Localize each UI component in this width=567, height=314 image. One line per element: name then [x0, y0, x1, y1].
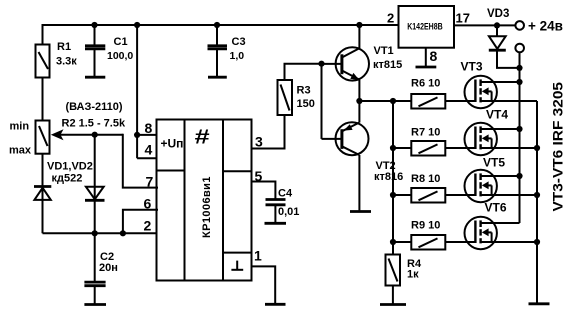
svg-text:R9 10: R9 10: [411, 219, 440, 231]
label VD1,VD2 kd522: [47, 160, 93, 184]
label max: [9, 144, 32, 156]
resistor R9: [393, 235, 475, 250]
resistor R1: [36, 45, 50, 78]
transistor VT1: [322, 25, 369, 101]
label #: [195, 126, 210, 148]
svg-text:6: 6: [144, 196, 152, 212]
capacitor C3: [208, 25, 228, 76]
node junction pin6 branch: [120, 230, 126, 236]
ground bar source rail: [529, 302, 550, 305]
svg-text:(ВАЗ-2110): (ВАЗ-2110): [66, 101, 123, 113]
resistor R3: [278, 80, 293, 115]
ground bar pin1: [265, 303, 286, 306]
svg-text:min: min: [10, 121, 30, 133]
svg-text:20н: 20н: [99, 262, 118, 274]
ground bar U2 pin8: [416, 66, 437, 69]
label VT5: [483, 156, 505, 170]
svg-text:VT6: VT6: [485, 200, 507, 214]
label R3 150: [297, 85, 315, 110]
ground bar C2: [84, 303, 106, 306]
label C3 1,0: [230, 36, 246, 62]
wire pin6 branch: [123, 210, 157, 234]
capacitor C4: [266, 200, 286, 223]
resistor R4: [386, 255, 401, 304]
svg-text:КР1006ви1: КР1006ви1: [201, 177, 213, 239]
wire R1 to R2: [42, 78, 44, 121]
pin number 1: [254, 248, 262, 264]
wire VD2 branch: [94, 135, 96, 234]
svg-text:2: 2: [144, 217, 152, 233]
svg-text:R7 10: R7 10: [411, 126, 440, 138]
resistor R6: [411, 94, 475, 109]
regulator U2 K142EH8B: [399, 6, 455, 48]
capacitor C2: [84, 233, 105, 303]
wire pin1 to ground: [252, 266, 276, 303]
ground symbol inside U1: [231, 261, 243, 270]
node junction pin8: [134, 22, 140, 138]
terminal +24v: [515, 19, 563, 34]
svg-text:#: #: [195, 126, 210, 148]
svg-text:0,01: 0,01: [278, 206, 299, 218]
wire pin5 to C4: [252, 182, 276, 199]
svg-text:4: 4: [145, 142, 153, 158]
label VT3-VT6 IRF 3205: [551, 81, 566, 211]
label R7 10: [411, 126, 440, 138]
wire R2 to VD1: [42, 154, 44, 234]
label VT2 kt816: [374, 160, 403, 183]
label R4 1k: [407, 258, 422, 281]
label C2 20n: [99, 251, 118, 274]
svg-text:VT3: VT3: [461, 60, 483, 74]
svg-text:+Uп: +Uп: [161, 136, 184, 150]
svg-text:3: 3: [255, 134, 263, 150]
wire supply to pins 8,4: [136, 25, 138, 158]
node junction VT3 drain: [516, 79, 522, 85]
label min: [10, 121, 30, 133]
pin number 7: [146, 173, 154, 189]
label C4 0,01: [278, 188, 299, 218]
node junction R8 feed: [390, 192, 396, 198]
pin number 5: [255, 168, 263, 184]
wire U2 pin8 to ground: [425, 48, 427, 66]
wire pin3 to R3: [252, 115, 285, 149]
transistor Q VT5 mosfet: [465, 170, 538, 202]
label R9 10: [411, 219, 440, 231]
svg-text:кд522: кд522: [52, 172, 83, 184]
transistor VT2: [322, 101, 369, 210]
wire gate distribution: [392, 101, 394, 255]
svg-text:17: 17: [456, 11, 470, 26]
ground bar C4: [265, 222, 287, 225]
node junction VT6 source: [534, 239, 540, 245]
diode VD3: [489, 25, 520, 68]
svg-text:R1: R1: [57, 41, 71, 53]
node junction R9 feed: [390, 239, 396, 245]
terminal motor output: [515, 44, 524, 53]
ground bar VT2 collector: [350, 210, 371, 213]
ground bar C1: [85, 76, 105, 79]
svg-text:кт816: кт816: [374, 171, 403, 183]
label VT1 kt815: [373, 45, 402, 71]
svg-text:VD3: VD3: [487, 8, 509, 20]
capacitor C1: [85, 25, 105, 76]
diode VD2: [85, 187, 105, 201]
node junction VT5 source: [534, 192, 540, 198]
pin number 17 U2: [456, 11, 470, 26]
node junction R7 feed: [390, 145, 396, 151]
pin number 8 U2: [430, 48, 438, 64]
wire R3 to bases: [285, 64, 322, 80]
wire source rail: [536, 101, 538, 303]
svg-text:150: 150: [297, 98, 315, 110]
label VT3: [461, 60, 483, 74]
wire wiper to pin7: [123, 135, 157, 188]
svg-text:VT3-VT6 IRF 3205: VT3-VT6 IRF 3205: [551, 81, 566, 211]
wire drain rail: [519, 52, 521, 223]
wire bottom net to pin2: [43, 232, 158, 234]
wire U2 pin17 output: [454, 24, 516, 26]
label R1 3.3k: [56, 41, 77, 68]
op-amp U1 timer KR1006vi1 body: [157, 120, 252, 281]
svg-text:3.3к: 3.3к: [56, 56, 77, 68]
svg-text:8: 8: [430, 48, 438, 64]
svg-text:R3: R3: [297, 85, 311, 97]
node junction VT1 collector: [356, 22, 362, 28]
svg-text:max: max: [9, 144, 32, 156]
svg-text:1к: 1к: [407, 269, 419, 281]
node junction VT4 source: [534, 145, 540, 151]
transistor Q VT4 mosfet: [465, 123, 538, 155]
label VD3: [487, 8, 509, 20]
node junction VD3 top: [494, 22, 500, 28]
node junction VT5 drain: [516, 173, 522, 179]
svg-text:C4: C4: [278, 188, 293, 200]
wire R2 wiper: [51, 129, 123, 140]
resistor R8: [393, 188, 475, 203]
diode VD1: [34, 187, 51, 200]
svg-text:7: 7: [146, 173, 154, 189]
svg-text:VT5: VT5: [483, 156, 505, 170]
wire pin8 stub: [137, 134, 157, 136]
svg-text:R8 10: R8 10: [411, 173, 440, 185]
label R6 10: [411, 78, 440, 90]
svg-text:VD1,VD2: VD1,VD2: [47, 160, 93, 172]
pin number 6: [144, 196, 152, 212]
pin number 8: [145, 120, 153, 136]
node junction emitters: [356, 98, 362, 104]
svg-text:1,0: 1,0: [230, 50, 245, 62]
label VT6: [485, 200, 507, 214]
pin number 2: [144, 217, 152, 233]
pin number 4: [145, 142, 153, 158]
label R8 10: [411, 173, 440, 185]
svg-text:VT4: VT4: [486, 108, 508, 122]
potentiometer R2: [36, 121, 50, 154]
svg-text:кт815: кт815: [373, 59, 402, 71]
svg-text:K142EH8B: K142EH8B: [407, 22, 443, 33]
svg-text:+ 24в: + 24в: [528, 19, 563, 34]
resistor R7: [393, 141, 475, 156]
wire base vertical: [321, 64, 323, 139]
label +Up: [161, 136, 184, 150]
transistor Q VT3 mosfet: [465, 76, 538, 108]
svg-text:100,0: 100,0: [107, 50, 133, 62]
svg-text:8: 8: [145, 120, 153, 136]
svg-text:VT1: VT1: [374, 45, 394, 57]
ground bar R4: [380, 303, 406, 306]
label KR1006vi1: [201, 177, 213, 239]
svg-text:R6 10: R6 10: [411, 78, 440, 90]
ground bar C3: [208, 76, 227, 79]
label (VAZ-2110) R2 value: [62, 101, 126, 130]
wire pin4 stub: [137, 157, 157, 159]
wire emitters to gate resistors: [359, 100, 411, 102]
node junction base: [318, 61, 324, 67]
wire top supply rail: [43, 25, 399, 44]
svg-text:C3: C3: [232, 36, 246, 48]
node junction C2: [92, 230, 98, 236]
svg-text:1: 1: [254, 248, 262, 264]
node junction C3/top rail: [214, 22, 220, 28]
label VT4: [486, 108, 508, 122]
transistor Q VT6 mosfet: [465, 217, 538, 249]
label C1 100,0: [107, 36, 133, 62]
svg-text:2: 2: [387, 11, 394, 26]
pin number 3: [255, 134, 263, 150]
svg-text:C1: C1: [114, 36, 128, 48]
pin number 2 U2: [387, 11, 394, 26]
node junction VD3/rail: [516, 65, 522, 71]
node junction VT4 drain: [516, 126, 522, 132]
node junction C1/top rail: [91, 22, 97, 28]
node junction gate feed: [390, 98, 396, 104]
node junction wiper/VD2: [92, 132, 98, 138]
svg-text:R2 1.5 - 7.5k: R2 1.5 - 7.5k: [62, 118, 126, 130]
